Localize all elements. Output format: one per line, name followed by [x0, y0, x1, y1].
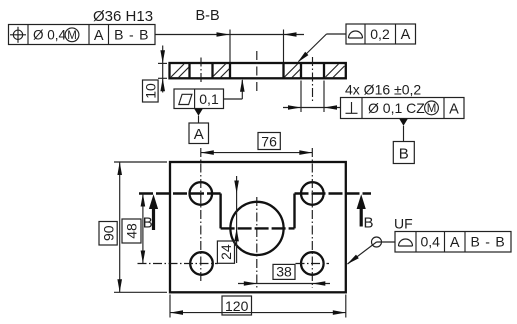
90 dimension [99, 162, 167, 292]
svg-text:Ø 0,1 CZ: Ø 0,1 CZ [368, 100, 425, 116]
svg-text:0,4: 0,4 [420, 234, 440, 250]
hole centerlines vertical left column [200, 148, 202, 281]
svg-text:A: A [401, 27, 411, 43]
section bar centerlines [200, 58, 202, 85]
section view bar outline [170, 63, 346, 78]
svg-text:A: A [450, 235, 460, 251]
120 dimension [170, 295, 346, 318]
bottom-right hole horizontal centerline [296, 263, 330, 265]
front view plate outline [170, 162, 346, 292]
svg-text:B - B: B - B [470, 234, 505, 250]
section arrow left with label B [143, 194, 158, 231]
svg-text:Ø 0,4: Ø 0,4 [33, 28, 67, 43]
center hole Ø36 [230, 202, 283, 255]
svg-text:48: 48 [124, 223, 140, 239]
position symbol [13, 30, 22, 39]
hole bottom-left [190, 252, 213, 275]
svg-text:10: 10 [143, 83, 159, 99]
svg-text:A: A [449, 101, 459, 117]
dimension line from FCF1 to Ø36 extension lines [155, 30, 304, 63]
76 dimension [201, 133, 312, 155]
svg-text:B: B [143, 214, 153, 231]
38 dimension [238, 264, 330, 286]
svg-text:76: 76 [261, 133, 277, 149]
svg-text:0,2: 0,2 [370, 26, 390, 42]
svg-text:M: M [427, 103, 437, 115]
svg-text:A: A [94, 28, 104, 44]
flatness symbol [179, 94, 192, 104]
svg-text:M: M [67, 30, 77, 42]
hatching region 2 [214, 64, 230, 79]
section cutting line B-B zigzag [139, 194, 371, 229]
UF leader with all-around circle [347, 237, 395, 264]
4x holes dimension line in section [283, 81, 341, 113]
hatching region 3 [285, 64, 301, 78]
hole top-right [301, 182, 324, 205]
svg-text:Ø36 H13: Ø36 H13 [93, 8, 153, 25]
10 thickness dimension [143, 46, 168, 103]
svg-text:B-B: B-B [196, 8, 220, 24]
svg-text:A: A [194, 126, 204, 143]
svg-text:B - B: B - B [114, 27, 149, 43]
hatching region 1 [171, 64, 189, 78]
svg-text:B: B [364, 214, 374, 231]
48 dimension [122, 194, 145, 264]
perpendicularity FCF4 Ø0,1 CZ M A [341, 98, 465, 119]
svg-text:38: 38 [276, 264, 292, 280]
Ø36 extension lines down to section bar [229, 30, 231, 63]
datum B symbol under FCF4 [393, 119, 414, 164]
svg-text:B: B [399, 145, 409, 162]
datum A symbol [189, 109, 209, 144]
svg-text:0,1: 0,1 [199, 91, 219, 107]
24 dimension [217, 176, 239, 263]
svg-text:4x Ø16 ±0,2: 4x Ø16 ±0,2 [345, 82, 421, 98]
section arrow right with label B [357, 194, 374, 231]
leader FCF3 to bar top surface [298, 34, 347, 63]
profile FCF3 0,2 A with leader [346, 24, 416, 44]
hole bottom-right [301, 252, 324, 275]
svg-text:UF: UF [394, 216, 413, 232]
feature control frame FCF1 position Ø0,4 M A B-B [9, 25, 156, 46]
hole top-left [190, 182, 213, 205]
center circle vertical centerline [256, 197, 258, 288]
flatness leader to bar bottom [224, 79, 245, 99]
perpendicularity symbol [346, 112, 358, 114]
flatness FCF2 0,1 [174, 89, 224, 109]
hole edge lines in section [188, 63, 190, 78]
profile FCF5 0,4 A B-B (united feature) [395, 232, 511, 253]
bottom-left hole horizontal centerline [138, 263, 219, 265]
hatching region 4 [326, 64, 345, 78]
profile of surface symbol [349, 31, 363, 38]
svg-text:24: 24 [218, 244, 234, 260]
svg-text:90: 90 [100, 225, 116, 241]
hole centerlines vertical right column [311, 148, 313, 288]
svg-text:120: 120 [225, 298, 249, 314]
